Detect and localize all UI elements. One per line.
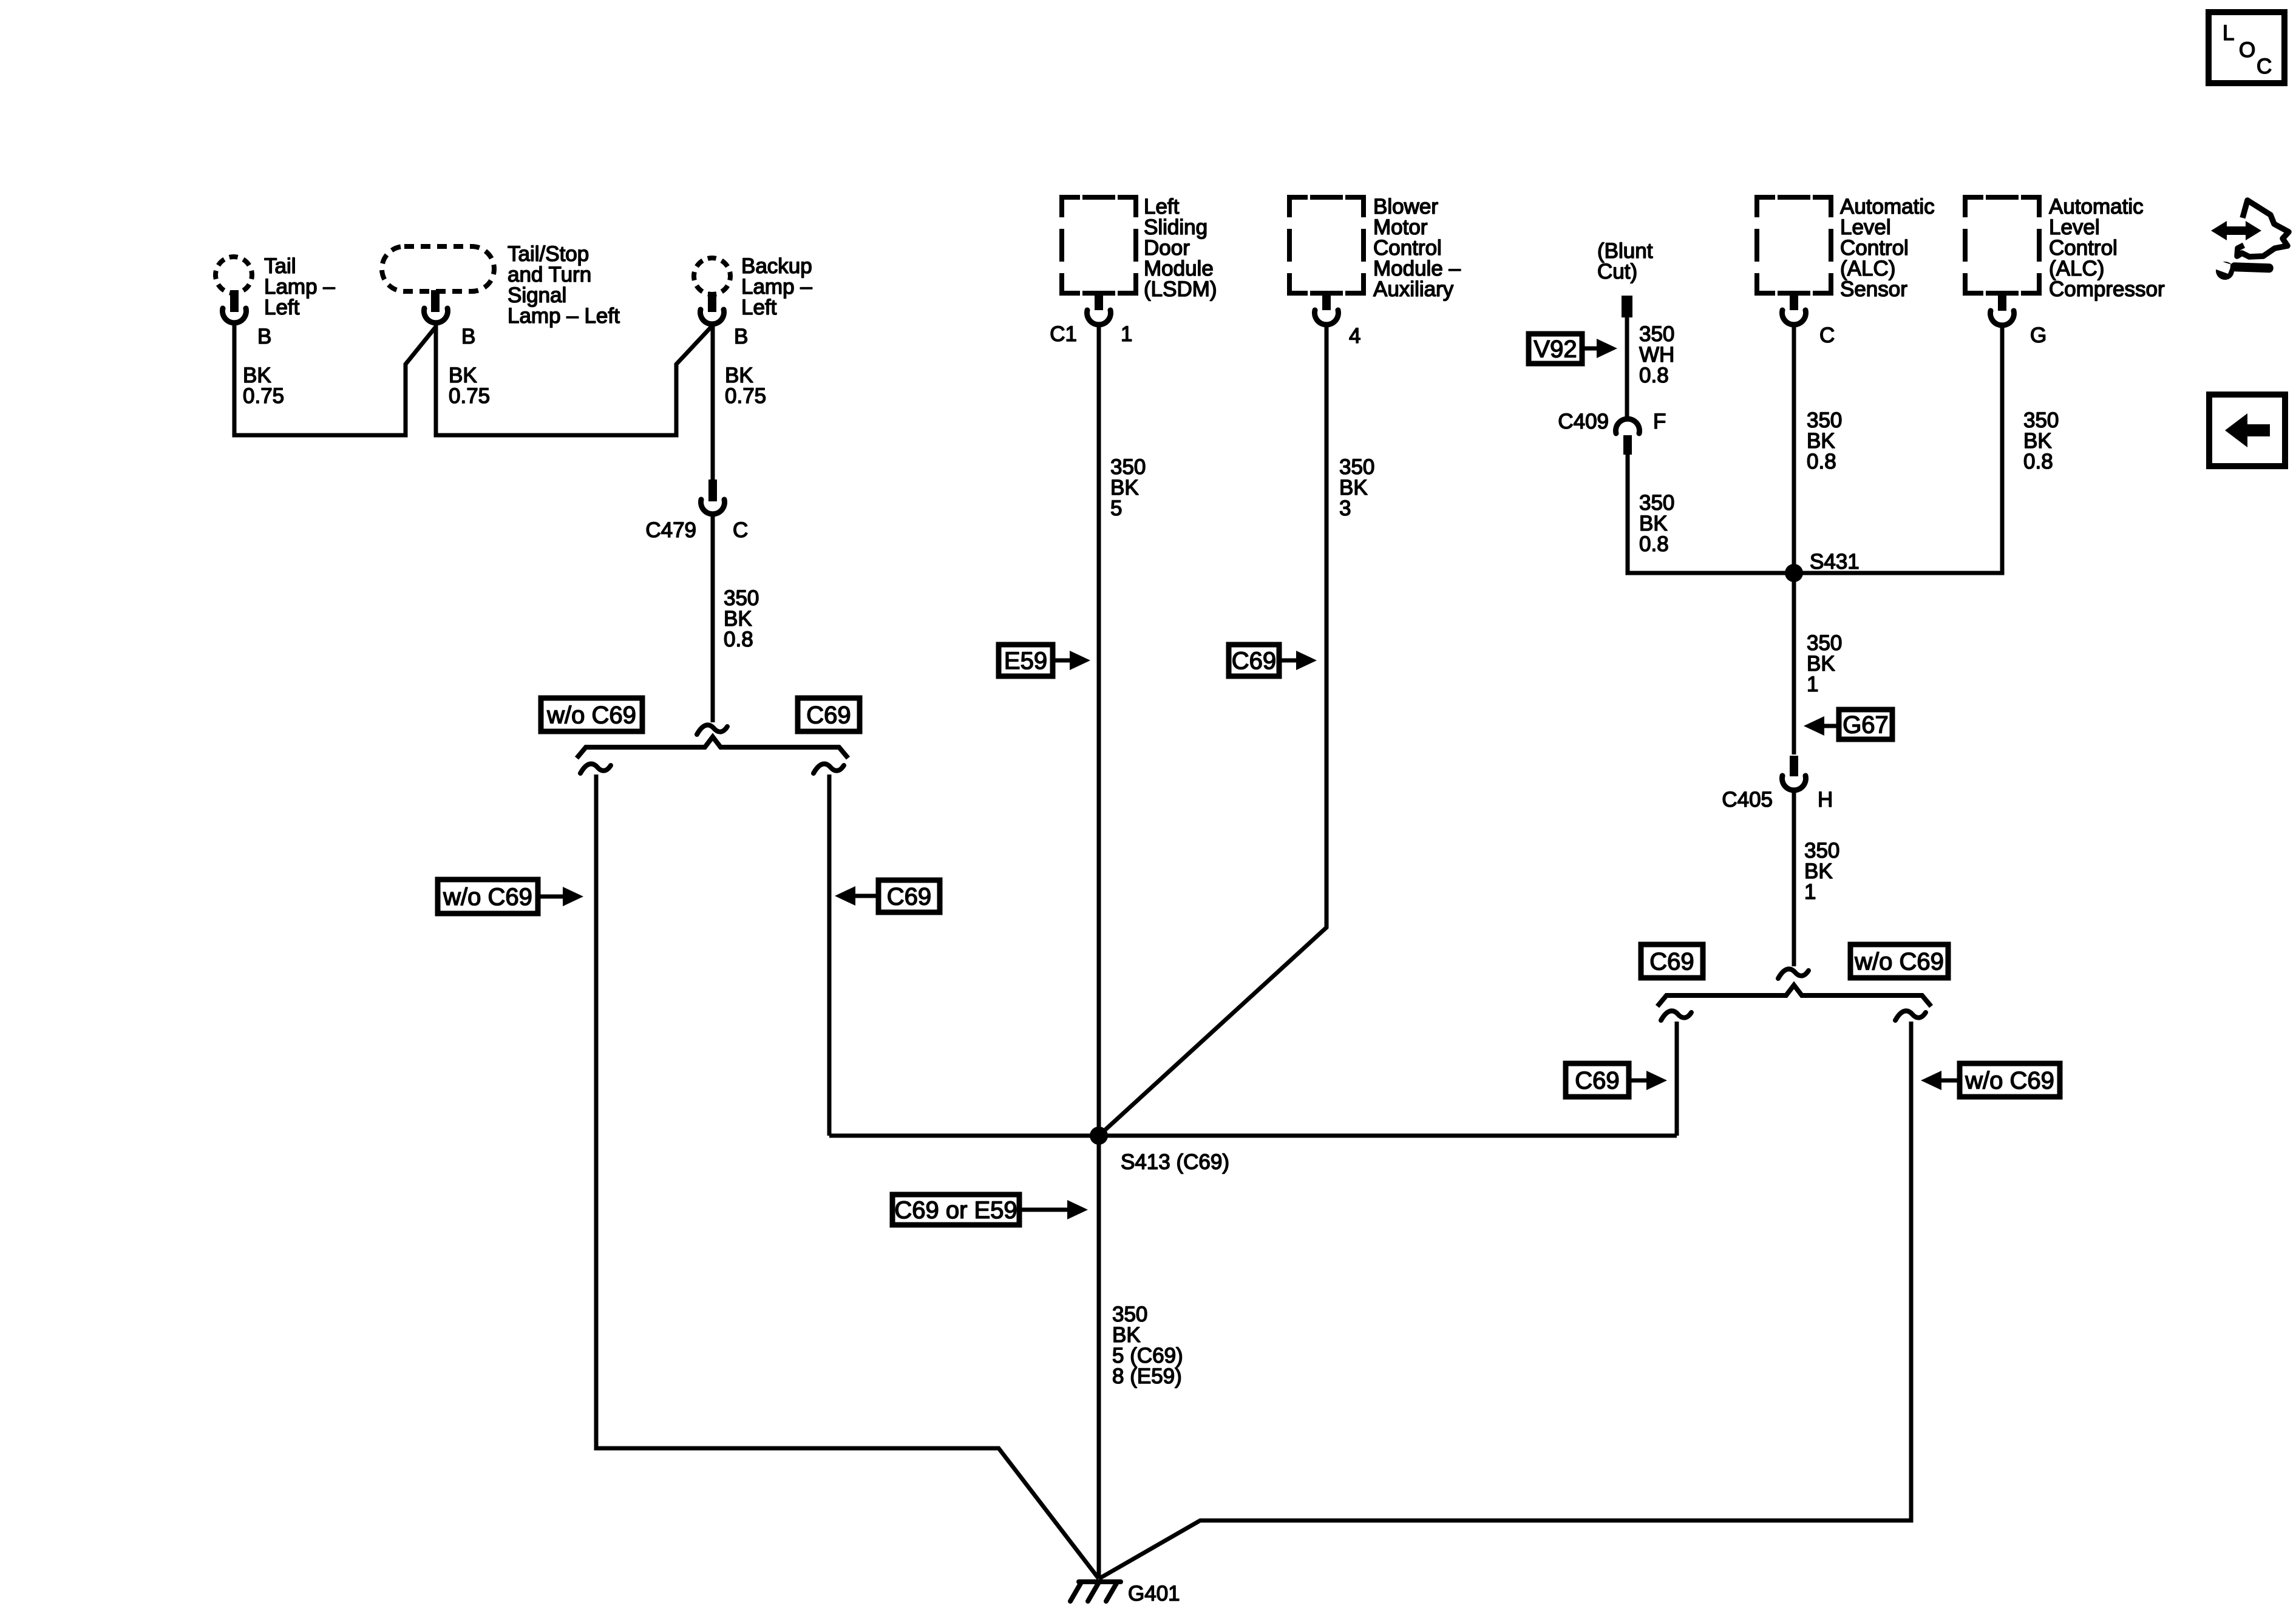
- pin 4 of blower module: [1322, 293, 1331, 310]
- svg-text:1: 1: [1804, 880, 1816, 904]
- wire 350 WH 0.8 from blunt cut to C409: [1625, 316, 1629, 419]
- lamp: Tail/Stop and Turn Signal Lamp - Left (dashed stadium): [382, 246, 494, 291]
- svg-text:O: O: [2239, 38, 2255, 62]
- wire C69 branch down to S413 run: [827, 775, 832, 1136]
- arrow from G67 box to wire: [1823, 724, 1839, 728]
- arrow from C69 box to branch wire: [854, 894, 878, 898]
- svg-text:w/o C69: w/o C69: [1965, 1068, 2054, 1094]
- wire 350 BK 0.75 from Tail/Stop lamp to Backup lamp: [436, 324, 712, 435]
- svg-text:V92: V92: [1533, 336, 1577, 363]
- svg-text:F: F: [1653, 410, 1666, 433]
- wire C69 branch down to S413 run (right): [1675, 1022, 1679, 1136]
- w/o C69 option box (right split): [1850, 944, 1948, 978]
- svg-text:C69: C69: [1649, 949, 1694, 975]
- pin 1 of LSDM: [1095, 293, 1103, 310]
- connector cup at blower module pin 4: [1315, 310, 1339, 325]
- svg-text:C409: C409: [1558, 410, 1609, 433]
- svg-text:B: B: [461, 325, 475, 348]
- squiggle start of w/o C69 branch: [580, 764, 611, 773]
- connector C479 pin: [708, 480, 717, 501]
- svg-text:0.75: 0.75: [449, 384, 490, 408]
- arrow from w/o C69 box to right branch: [1940, 1079, 1960, 1083]
- ground G401 symbol: [1070, 1582, 1121, 1601]
- svg-text:Left: Left: [264, 296, 300, 319]
- squiggle start of C69 branch (right split): [1661, 1011, 1691, 1020]
- svg-text:Left: Left: [741, 296, 777, 319]
- svg-text:C69: C69: [1232, 648, 1276, 674]
- pin B of Tail/Stop lamp: [431, 290, 440, 312]
- E59 harness code box: [999, 645, 1053, 676]
- module: Blower Motor Control Module - Auxiliary dashed box: [1289, 197, 1364, 293]
- repair information icon (double arrow, harness outline, wrench): [2211, 200, 2289, 280]
- wire 350 BK 0.75 from Backup lamp down to C479: [711, 325, 715, 480]
- svg-text:0.8: 0.8: [1639, 364, 1669, 387]
- C69 option box (left split): [798, 698, 860, 731]
- svg-text:0.75: 0.75: [243, 384, 284, 408]
- arrow from C69 box to blower wire: [1279, 659, 1297, 663]
- svg-text:E59: E59: [1004, 648, 1047, 674]
- w/o C69 arrow callout box (right): [1960, 1063, 2060, 1097]
- pin B of Tail Lamp: [230, 290, 239, 312]
- w/o C69 option box (left split): [541, 698, 642, 731]
- C69 arrow callout box (right): [1566, 1063, 1629, 1097]
- wire w/o C69 branch down to ground run: [596, 775, 1099, 1579]
- C69 arrow callout box (left): [878, 880, 940, 912]
- svg-text:C: C: [1819, 324, 1835, 347]
- splice S413 (C69) junction dot: [1090, 1127, 1108, 1145]
- svg-text:1: 1: [1807, 673, 1818, 696]
- connector C409 dome: [1616, 419, 1640, 433]
- svg-text:0.8: 0.8: [1639, 532, 1669, 556]
- squiggle start of C69 branch: [813, 764, 844, 773]
- svg-text:Sensor: Sensor: [1840, 277, 1907, 301]
- C69 or E59 code box: [892, 1195, 1019, 1225]
- svg-text:0.8: 0.8: [1807, 450, 1836, 473]
- squiggle start of w/o C69 branch (right split): [1895, 1011, 1926, 1020]
- module: Automatic Level Control (ALC) Sensor dashed box: [1757, 197, 1831, 293]
- wire 350 BK 0.8 from C409 to S431: [1628, 453, 1794, 573]
- svg-text:L: L: [2223, 21, 2234, 45]
- svg-text:G67: G67: [1843, 712, 1889, 739]
- svg-text:B: B: [257, 325, 271, 348]
- ground run wire from C69 branch through S413 to second split: [829, 1134, 1677, 1138]
- connector C1 cup at LSDM: [1087, 310, 1111, 325]
- back arrow glyph: [2225, 413, 2270, 447]
- main ground wire from S413 to G401: [1097, 1136, 1101, 1579]
- svg-text:Lamp – Left: Lamp – Left: [508, 304, 620, 328]
- svg-text:C405: C405: [1722, 788, 1773, 812]
- w/o C69 arrow callout box (left): [438, 880, 538, 914]
- wire 350 BK 0.8 from ALC sensor to S431: [1792, 325, 1796, 573]
- svg-text:0.8: 0.8: [724, 628, 753, 651]
- G67 harness code box: [1839, 710, 1892, 739]
- svg-text:G401: G401: [1128, 1582, 1180, 1605]
- blunt cut terminal bar: [1622, 296, 1632, 317]
- wire break squiggle above right brace: [1778, 969, 1809, 978]
- svg-text:Cut): Cut): [1597, 260, 1637, 283]
- harness option brace (right split): [1657, 985, 1931, 1006]
- wire 350 BK 1 from S431 down to C405: [1792, 573, 1796, 754]
- wire 350 BK 3 from blower module to S413: [1099, 325, 1326, 1136]
- module: Left Sliding Door Module (LSDM) dashed box: [1062, 197, 1136, 293]
- svg-text:5: 5: [1110, 497, 1122, 520]
- C69 option box (right split): [1641, 944, 1703, 978]
- svg-text:w/o C69: w/o C69: [546, 702, 636, 729]
- svg-text:Auxiliary: Auxiliary: [1373, 277, 1454, 301]
- svg-text:C69: C69: [1575, 1068, 1619, 1094]
- svg-text:C69: C69: [887, 884, 931, 910]
- svg-text:C69: C69: [806, 702, 851, 729]
- pin C of ALC sensor: [1790, 293, 1798, 310]
- svg-text:B: B: [734, 325, 748, 348]
- wire w/o C69 branch down to ground run (right): [1099, 1022, 1911, 1579]
- svg-text:C: C: [2257, 55, 2272, 78]
- svg-text:w/o C69: w/o C69: [443, 884, 532, 910]
- splice S431 junction dot: [1785, 564, 1803, 582]
- back arrow navigation box: [2209, 395, 2285, 466]
- wire 350 BK 0.8 from C479 to harness split: [711, 515, 715, 722]
- pin G of ALC compressor: [1998, 294, 2006, 311]
- connector cup at Tail/Stop lamp pin B: [424, 308, 448, 323]
- svg-text:8 (E59): 8 (E59): [1112, 1364, 1182, 1388]
- connector C405 cup: [1782, 776, 1806, 790]
- svg-text:S431: S431: [1810, 550, 1860, 574]
- svg-text:Compressor: Compressor: [2049, 277, 2165, 301]
- connector cup at Backup lamp pin B: [701, 310, 724, 324]
- arrow from w/o C69 box to branch wire: [538, 895, 564, 899]
- svg-text:G: G: [2030, 324, 2046, 347]
- arrow from C69 box to right C69 branch: [1629, 1079, 1648, 1083]
- connector cup at ALC compressor pin G: [1991, 311, 2014, 325]
- connector cup at Tail Lamp pin B: [223, 308, 246, 323]
- wire break squiggle above left brace: [697, 725, 727, 734]
- svg-text:H: H: [1818, 788, 1833, 812]
- arrow from C69 or E59 box to main ground wire: [1019, 1208, 1068, 1212]
- svg-text:C69 or E59: C69 or E59: [894, 1197, 1017, 1224]
- harness option brace (left split): [577, 737, 848, 758]
- connector C409 pin: [1623, 435, 1632, 455]
- V92 harness code box: [1529, 334, 1582, 364]
- svg-text:C479: C479: [645, 518, 696, 542]
- svg-text:0.8: 0.8: [2023, 450, 2053, 473]
- svg-text:C: C: [733, 518, 748, 542]
- wire 350 BK 0.8 from ALC compressor to S431: [1794, 326, 2002, 573]
- arrow from E59 box to LSDM wire: [1053, 659, 1071, 663]
- svg-text:(LSDM): (LSDM): [1144, 277, 1217, 301]
- svg-text:4: 4: [1349, 324, 1360, 348]
- LOC legend box: [2209, 12, 2284, 83]
- svg-text:w/o C69: w/o C69: [1854, 949, 1944, 975]
- connector cup at ALC sensor pin C: [1782, 310, 1805, 325]
- svg-text:S413 (C69): S413 (C69): [1121, 1150, 1229, 1174]
- svg-text:1: 1: [1121, 322, 1132, 346]
- connector C479 cup: [701, 500, 725, 514]
- lamp: Backup Lamp - Left (dashed circle): [690, 254, 735, 299]
- arrow from V92 box to blunt cut wire: [1582, 347, 1598, 351]
- lamp E: Tail Lamp - Left (dashed circle): [212, 253, 256, 297]
- wire 350 BK 5 from LSDM pin 1 to S413: [1097, 325, 1101, 1136]
- module: Automatic Level Control (ALC) Compressor dashed box: [1965, 197, 2039, 293]
- connector C405 pin: [1790, 756, 1798, 776]
- wire 350 BK 0.75 from Tail Lamp to Tail/Stop lamp: [234, 324, 436, 435]
- svg-text:0.75: 0.75: [725, 384, 766, 408]
- pin B of Backup lamp: [708, 292, 716, 312]
- svg-text:3: 3: [1339, 497, 1351, 520]
- svg-text:C1: C1: [1050, 322, 1077, 346]
- C69 harness code box (blower wire): [1229, 645, 1279, 676]
- wire 350 BK 1 from C405 to second split: [1792, 792, 1796, 966]
